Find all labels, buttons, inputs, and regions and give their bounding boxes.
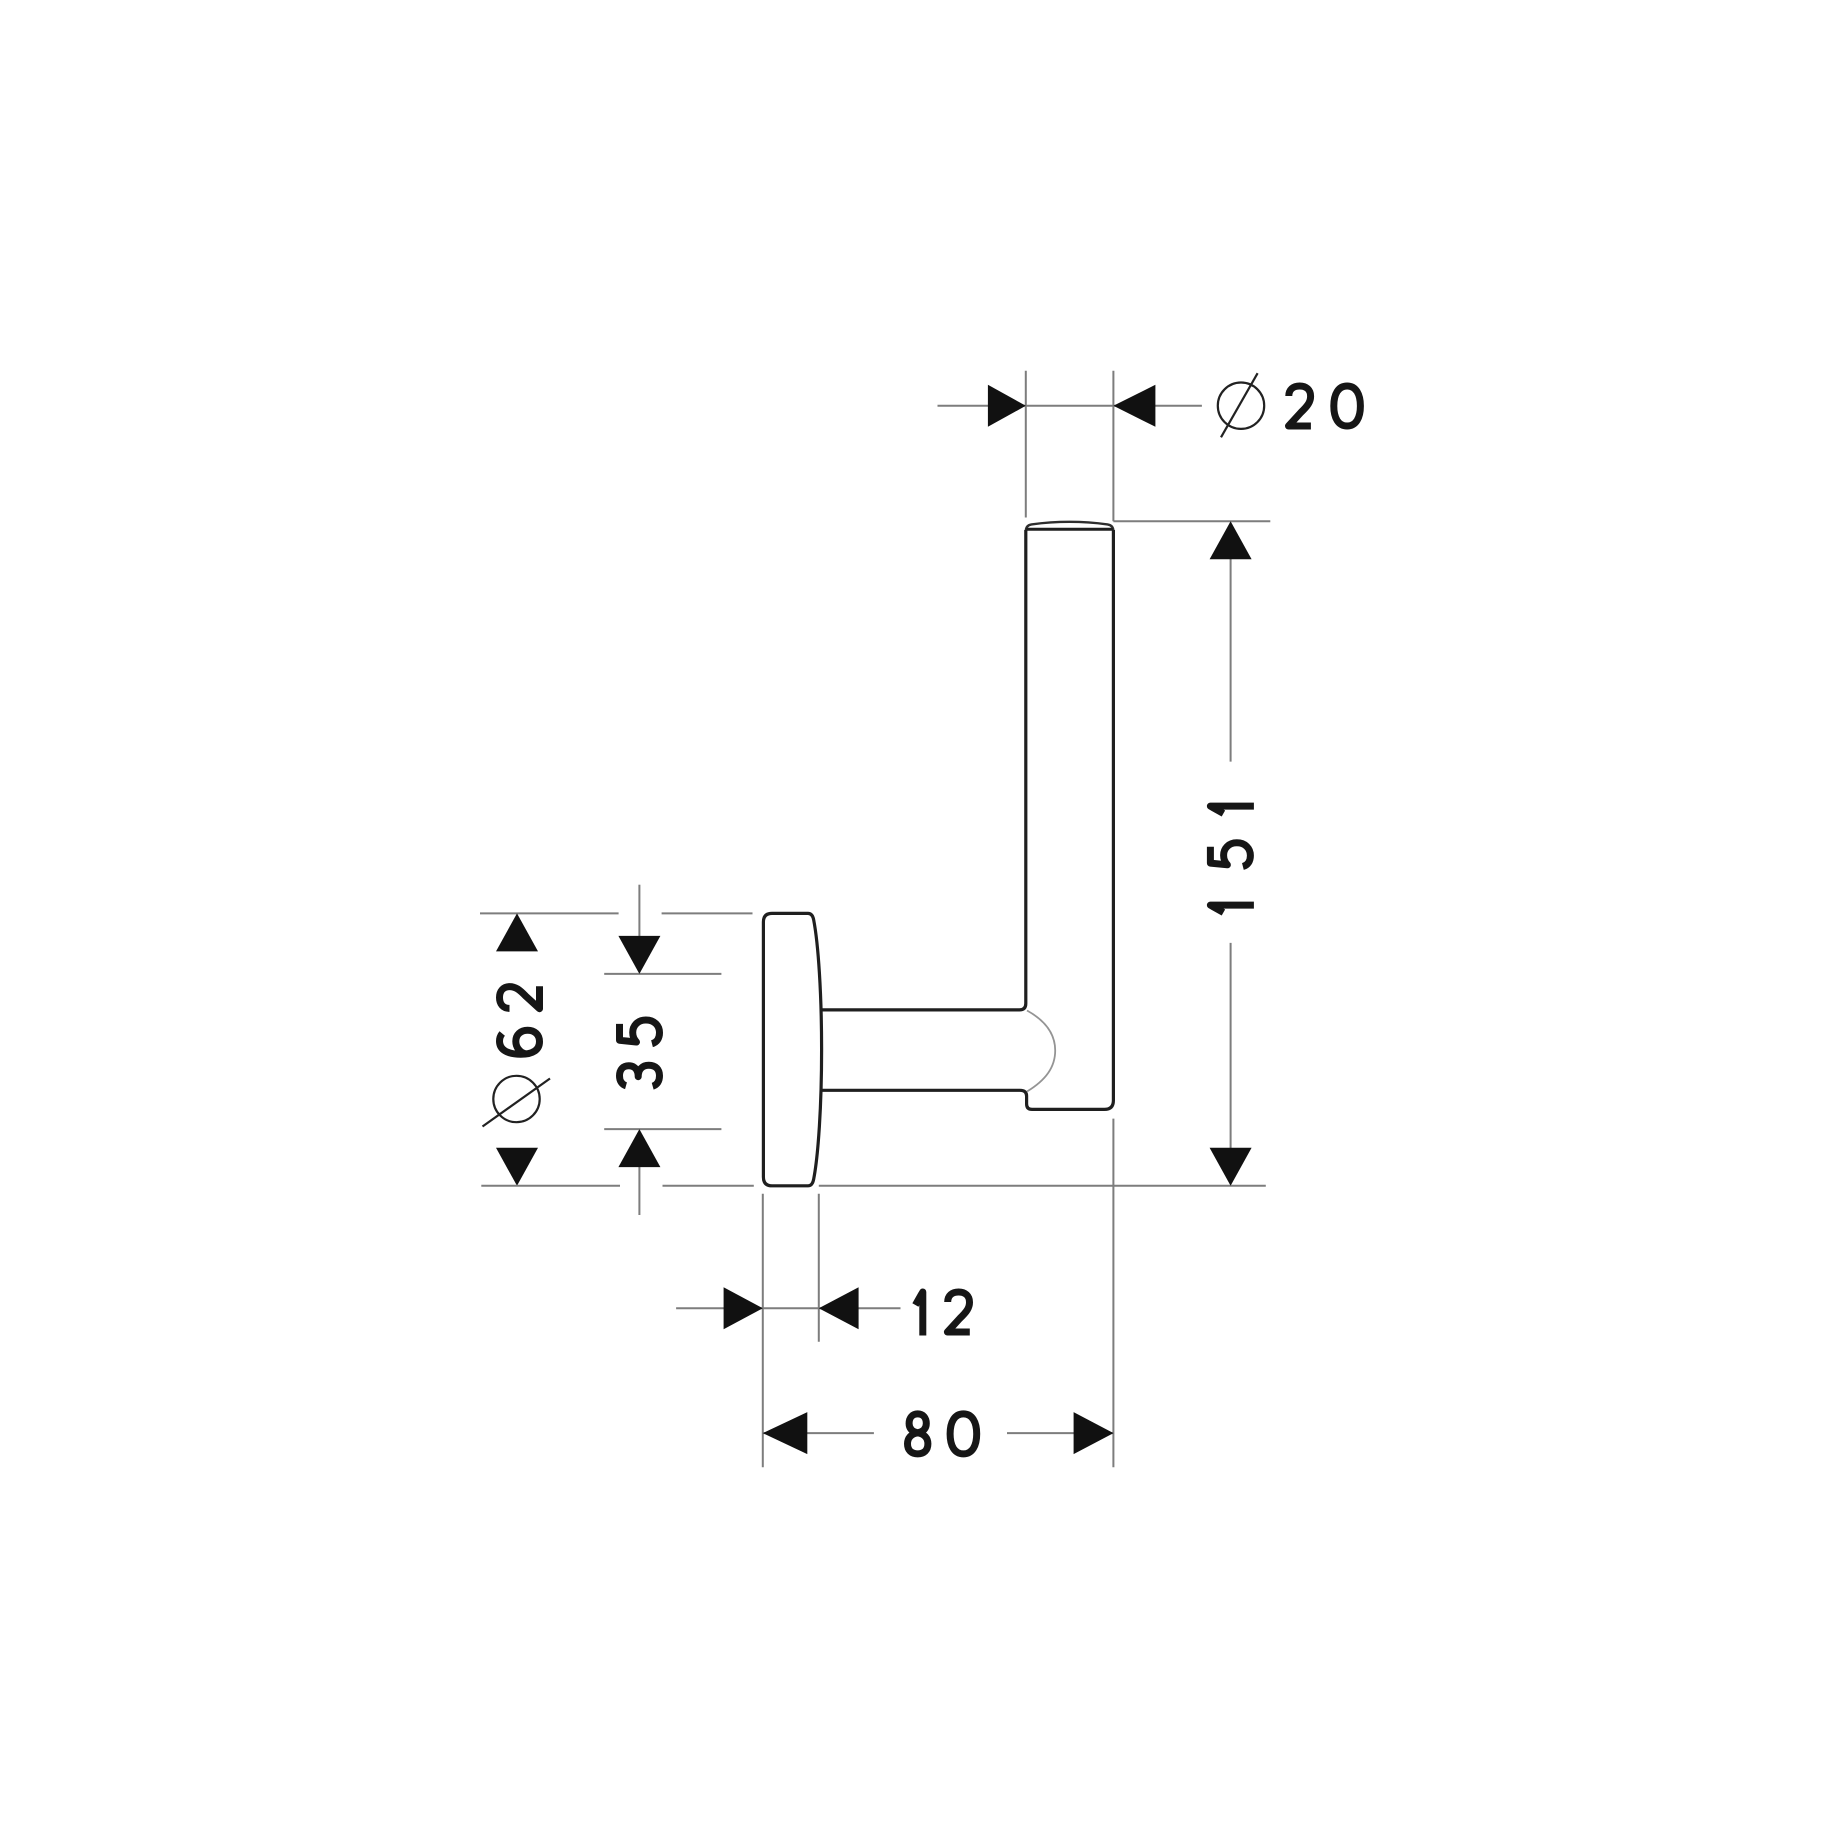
dimension 151 value label rotated (1210, 806, 1254, 912)
rod left edge and arm top edge (821, 530, 1026, 1010)
dimension d20 extension line right (1112, 371, 1114, 522)
dimension d20 diameter symbol (1218, 373, 1264, 437)
dimension 151 arrow up (1210, 521, 1252, 559)
dimension d62 arrow up (496, 913, 538, 951)
dimension 12 arrow pointing right (724, 1287, 763, 1329)
dimension 80 line right segment (1007, 1432, 1114, 1434)
dimension 151 line lower segment (1230, 943, 1232, 1149)
dimension 35 arrow up with tail (638, 1165, 640, 1215)
dimension 151 arrow down (1210, 1148, 1252, 1186)
dimension 80 line left segment (763, 1432, 874, 1434)
dimension d62 diameter symbol rotated (483, 1076, 551, 1127)
dimension 12 line (676, 1307, 900, 1309)
dimension d20 arrow left (988, 385, 1026, 427)
dimension d20 value label 20 (1289, 386, 1361, 426)
dimension d62 value label 62 rotated (500, 986, 540, 1054)
dimension d20 line (938, 405, 1202, 407)
dimension 12 arrow pointing left (819, 1287, 859, 1329)
dimension 35 extension line bottom (604, 1128, 721, 1130)
dimension 80 extension line right below rod (1112, 1119, 1114, 1468)
rod top chamfer line (1026, 528, 1113, 531)
dimension d62 arrow down (496, 1148, 538, 1186)
wall baseline segment a (481, 1185, 620, 1187)
dimension d62 extension line top segment b (662, 912, 753, 914)
rod-arm intersection fillet arc (1027, 1011, 1055, 1092)
dimension 35 arrow down with tail (638, 885, 640, 938)
wall baseline segment c (819, 1185, 1266, 1187)
dimension 12 value label (915, 1292, 969, 1336)
rod top cap arc (1026, 522, 1114, 532)
dimension 151 line upper segment (1230, 558, 1232, 762)
dimension 80 arrow pointing right (1074, 1412, 1114, 1454)
rod right edge, bottom cap, step and arm bottom edge (821, 530, 1114, 1109)
dimension 35 value label rotated (620, 1020, 660, 1086)
dimension 35 extension line top (604, 973, 721, 975)
dimension d20 extension line left (1025, 371, 1027, 518)
dimension 80 arrow pointing left (763, 1412, 808, 1454)
dimension 12 extension line left (762, 1194, 764, 1468)
wall baseline segment b (663, 1185, 754, 1187)
dimension d62 extension line top segment a (480, 912, 619, 914)
wall plate outline (763, 913, 821, 1185)
dimension d20 arrow right (1113, 385, 1155, 427)
dimension 12 extension line right (818, 1194, 820, 1342)
dimension 151 extension line top (1113, 520, 1270, 522)
dimension 80 value label (908, 1414, 977, 1454)
